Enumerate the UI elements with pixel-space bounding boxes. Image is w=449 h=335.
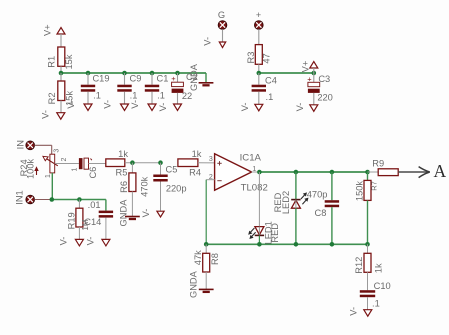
svg-text:IC1A: IC1A [240,153,262,164]
svg-text:R7: R7 [370,181,379,191]
svg-text:22: 22 [182,91,192,101]
svg-text:IN: IN [16,140,26,149]
svg-text:1: 1 [252,166,256,173]
svg-text:C8: C8 [315,208,327,218]
svg-text:V-: V- [158,103,168,112]
svg-text:A: A [433,161,446,181]
svg-text:IN1: IN1 [15,190,25,204]
svg-text:V-: V- [59,237,69,246]
svg-text:C19: C19 [92,74,109,84]
svg-text:R9: R9 [372,159,384,169]
svg-text:1: 1 [71,167,78,171]
svg-text:V-: V- [41,110,51,119]
svg-text:V-: V- [66,100,76,109]
svg-text:47: 47 [262,53,272,63]
svg-text:470k: 470k [140,176,150,197]
svg-text:GNDA: GNDA [119,199,129,227]
svg-text:2: 2 [209,174,213,181]
svg-text:R4: R4 [189,168,201,178]
svg-text:TL082: TL082 [241,183,268,194]
svg-text:GNDA: GNDA [189,63,199,91]
svg-text:1k: 1k [118,149,128,159]
svg-text:R1: R1 [47,56,57,68]
svg-text:GNDA: GNDA [189,270,199,298]
svg-text:.1: .1 [157,91,165,101]
svg-text:V-: V- [141,209,151,218]
svg-text:C1: C1 [157,74,169,84]
svg-text:V-: V- [240,103,250,112]
svg-text:C10: C10 [374,281,391,291]
svg-text:V-: V- [295,103,305,112]
svg-text:.01: .01 [88,200,101,210]
svg-text:2: 2 [61,157,68,161]
svg-text:1: 1 [45,174,52,178]
svg-text:C3: C3 [318,74,330,84]
svg-text:R8: R8 [210,253,220,265]
svg-text:G: G [218,10,225,20]
svg-text:3: 3 [54,149,61,153]
svg-text:.1: .1 [266,92,274,102]
svg-text:47k: 47k [193,250,203,265]
svg-text:R2: R2 [47,92,57,104]
svg-text:R19: R19 [67,212,77,229]
svg-text:1k: 1k [192,149,202,159]
svg-text:100k: 100k [26,158,36,179]
svg-text:150k: 150k [354,181,364,202]
svg-text:V+: V+ [301,61,311,73]
svg-text:470p: 470p [307,189,328,199]
svg-text:C6: C6 [88,167,98,179]
svg-text:C14: C14 [84,217,101,227]
svg-text:V-: V- [86,237,96,246]
svg-text:LED2: LED2 [281,191,291,214]
svg-text:V-: V- [130,100,140,109]
svg-text:+: + [256,10,261,20]
svg-text:RED: RED [270,223,280,243]
svg-text:15k: 15k [64,54,74,69]
svg-text:1k: 1k [374,263,384,273]
svg-text:220: 220 [317,92,333,102]
svg-text:V-: V- [349,307,359,316]
svg-text:V+: V+ [43,24,53,36]
svg-text:V-: V- [203,37,213,46]
svg-text:R12: R12 [354,257,364,274]
svg-text:.1: .1 [372,298,380,308]
svg-text:C5: C5 [166,165,178,175]
svg-text:C9: C9 [130,74,142,84]
svg-text:220p: 220p [166,183,187,193]
svg-text:.1: .1 [130,91,138,101]
svg-text:R3: R3 [246,52,256,64]
svg-text:C4: C4 [265,76,277,86]
svg-text:R6: R6 [119,181,129,193]
svg-text:3: 3 [209,156,213,163]
svg-text:.1: .1 [93,91,101,101]
svg-text:V-: V- [102,100,112,109]
svg-text:+: + [171,74,176,83]
svg-text:R5: R5 [116,168,128,178]
